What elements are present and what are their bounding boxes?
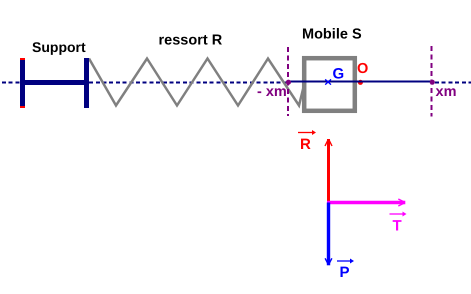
svg-text:O: O	[357, 61, 368, 77]
G cross marker	[325, 79, 331, 84]
dashed vertical line at -xm	[287, 47, 289, 116]
support left flange	[20, 58, 25, 108]
label T with vector accent	[390, 212, 407, 235]
svg-text:Mobile S: Mobile S	[302, 27, 362, 43]
svg-text:T: T	[393, 218, 402, 235]
node dot xm	[430, 80, 435, 85]
svg-text:ressort R: ressort R	[159, 33, 223, 49]
spring (ressort R) zigzag	[89, 59, 305, 106]
label R with vector accent	[298, 130, 316, 153]
vector T arrowhead	[398, 199, 404, 206]
svg-text:R: R	[300, 136, 311, 153]
vector R shaft (red, up)	[327, 139, 330, 204]
svg-text:- xm: - xm	[257, 84, 287, 100]
vector R arrowhead	[325, 141, 332, 147]
axis dashed segment right	[435, 82, 471, 84]
vector P shaft (blue, down)	[327, 203, 330, 266]
vector T shaft (magenta, right)	[327, 201, 405, 204]
support red tip bottom	[20, 106, 25, 108]
support web crossbar	[20, 80, 89, 85]
axis solid segment through mobile	[288, 81, 432, 83]
svg-text:G: G	[333, 66, 345, 83]
svg-text:Support: Support	[32, 39, 86, 55]
support right flange	[84, 58, 89, 108]
svg-text:P: P	[340, 264, 350, 281]
svg-text:xm: xm	[436, 84, 457, 100]
node dot -xm	[286, 80, 291, 85]
node dot O (red)	[358, 80, 363, 85]
mobile S box	[304, 58, 355, 111]
dashed vertical line at xm	[431, 46, 433, 117]
support red tip top	[20, 58, 25, 60]
vector P arrowhead	[325, 258, 332, 263]
axis x'x dashed segment left	[2, 82, 289, 84]
label P with vector accent	[337, 259, 354, 282]
